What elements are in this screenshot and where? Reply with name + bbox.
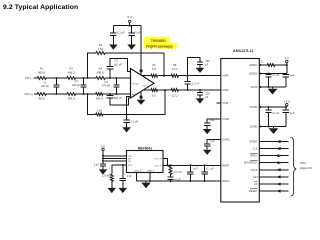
svg-text:AVSS: AVSS: [251, 85, 258, 89]
svg-text:DGND: DGND: [250, 125, 258, 129]
svg-text:VIN (−): VIN (−): [25, 76, 34, 80]
resistor R9 5 ohm: [150, 74, 158, 77]
svg-text:pF: pF: [205, 63, 208, 67]
svg-text:CAPA: CAPA: [222, 117, 229, 121]
svg-text:220: 220: [205, 59, 210, 63]
svg-text:330 pF: 330 pF: [72, 83, 80, 87]
wire VOCM line: [127, 97, 131, 120]
wire AVDD1: [260, 64, 287, 66]
wire bottom input rail: [34, 93, 131, 95]
resistor R3 499 ohm: [66, 77, 77, 80]
svg-text:FILT: FILT: [128, 165, 133, 167]
svg-text:5 Ω: 5 Ω: [152, 94, 156, 98]
svg-text:5 V: 5 V: [285, 56, 289, 60]
voltage reference U3 REF6041: [127, 151, 164, 173]
capacitor 47 uF: [167, 177, 173, 179]
resistor R12 22 ohm: [170, 89, 179, 92]
svg-text:2.2 nF: 2.2 nF: [192, 82, 200, 86]
svg-text:1 μF: 1 μF: [290, 112, 296, 115]
svg-text:START: START: [249, 140, 258, 144]
ground amp supply cap2: [131, 43, 133, 45]
svg-text:AVDD2: AVDD2: [249, 72, 258, 76]
wire top input rail: [34, 77, 131, 79]
wire REFN rail: [137, 180, 221, 182]
wire DRDY: [260, 155, 289, 157]
wire REF ground pins: [137, 173, 151, 182]
wire OUT_F jog: [163, 159, 168, 166]
wire SCLK: [260, 169, 289, 171]
svg-text:1 μF: 1 μF: [210, 118, 216, 122]
svg-text:1.8 V: 1.8 V: [284, 100, 290, 104]
op-amp negative supply pin: [140, 96, 143, 99]
svg-text:R3: R3: [99, 43, 103, 47]
svg-text:CAPD: CAPD: [222, 138, 229, 142]
capacitor 1 uF CAPD: [204, 144, 210, 146]
svg-text:C2: C2: [75, 79, 79, 83]
svg-text:5 V: 5 V: [128, 15, 132, 19]
svg-text:499 Ω: 499 Ω: [97, 71, 104, 75]
svg-text:1 kΩ: 1 kΩ: [98, 47, 103, 51]
capacitor 220 pF AINP: [186, 75, 188, 77]
svg-text:2 Ω: 2 Ω: [259, 60, 263, 64]
ground VOCM cap: [126, 126, 128, 128]
svg-text:0.1 μF: 0.1 μF: [206, 167, 214, 171]
svg-text:R4: R4: [99, 67, 103, 71]
svg-text:SCLK: SCLK: [251, 168, 258, 172]
wire bottom feedback rail: [86, 93, 88, 95]
svg-text:VIN (+): VIN (+): [24, 92, 33, 96]
wire START: [260, 141, 289, 143]
svg-text:CLK: CLK: [252, 147, 257, 151]
svg-text:160 pF: 160 pF: [114, 96, 122, 100]
svg-text:REFP: REFP: [222, 163, 229, 167]
op-amp power pin square: [140, 69, 143, 72]
svg-text:R6: R6: [152, 63, 156, 67]
capacitor 220 pF AINN: [199, 89, 201, 91]
resistor R4 499 ohm: [66, 93, 77, 96]
svg-text:499 Ω: 499 Ω: [68, 97, 75, 101]
ground FILT cap: [122, 187, 124, 189]
capacitor C3 160 pF top branch: [109, 77, 111, 79]
wire CAPD: [207, 140, 221, 144]
capacitor 1 uF amp supply: [128, 33, 134, 35]
svg-text:120 kΩ: 120 kΩ: [102, 174, 110, 178]
capacitor 1 uF reference: [189, 165, 191, 172]
svg-text:220: 220: [205, 92, 210, 96]
svg-text:5 Ω: 5 Ω: [152, 67, 156, 71]
svg-text:499 Ω: 499 Ω: [38, 97, 45, 101]
svg-text:pF: pF: [205, 95, 208, 99]
note THS4551 VQFN highlight: [143, 36, 178, 49]
svg-text:47 μF: 47 μF: [174, 177, 181, 181]
svg-text:1 μF: 1 μF: [192, 167, 198, 171]
capacitor 1 uF CAPA: [204, 123, 210, 125]
capacitor 0.1 uF VOCM: [123, 120, 130, 122]
svg-text:GND_S: GND_S: [134, 171, 142, 173]
node top feedback junction: [163, 75, 165, 77]
svg-text:1 μF: 1 μF: [290, 74, 296, 77]
capacitor C5 160 pF bottom branch: [109, 93, 111, 95]
ground 120k resistor: [111, 187, 113, 189]
resistor 47 mohm: [169, 165, 172, 175]
resistor 120 kohm: [110, 174, 113, 183]
svg-text:22 Ω: 22 Ω: [172, 94, 178, 98]
resistor R7 1 kohm: [95, 52, 106, 55]
wire SDI: [260, 176, 289, 178]
svg-text:470 pF: 470 pF: [102, 84, 110, 88]
svg-text:RESET: RESET: [249, 189, 258, 193]
svg-text:DRDY: DRDY: [250, 154, 258, 158]
svg-text:SDI: SDI: [253, 175, 258, 179]
op-amp U1 THS4551: [131, 69, 155, 99]
svg-text:0.1 μF: 0.1 μF: [272, 74, 280, 77]
svg-text:499 Ω: 499 Ω: [96, 97, 103, 101]
resistor R1 499 ohm: [36, 77, 47, 80]
capacitor 0.1 uF amp supply: [110, 33, 116, 35]
svg-text:C1: C1: [43, 80, 47, 84]
brace ADC digital I/O: [291, 138, 297, 197]
capacitor 0.1 uF reference: [204, 165, 206, 172]
wire SDO/DRDY: [260, 162, 289, 164]
svg-text:47 mΩ: 47 mΩ: [174, 170, 182, 174]
svg-text:THS4551: THS4551: [151, 39, 166, 43]
svg-text:IOVDD: IOVDD: [249, 105, 257, 109]
capacitor 1 uF IOVDD: [285, 107, 287, 110]
svg-text:C3: C3: [115, 58, 119, 62]
ground REF input cap: [102, 168, 104, 170]
wire top output: [142, 75, 221, 77]
svg-text:ADS127L11: ADS127L11: [233, 49, 254, 53]
svg-text:VCM: VCM: [222, 101, 228, 105]
svg-text:AINP: AINP: [222, 74, 228, 78]
svg-text:0.1 μF: 0.1 μF: [131, 120, 139, 124]
svg-text:SDO/DRDY: SDO/DRDY: [244, 161, 258, 165]
resistor R5 499 ohm: [95, 77, 106, 80]
wire RESET: [260, 190, 289, 192]
svg-text:5 V: 5 V: [101, 144, 105, 148]
svg-text:160 pF: 160 pF: [114, 62, 122, 66]
capacitor 1 uF FILT: [120, 178, 126, 180]
ground REF: [145, 181, 147, 183]
svg-text:(VQFN package): (VQFN package): [146, 45, 173, 49]
svg-text:1 μF: 1 μF: [135, 31, 141, 35]
svg-text:VOCM: VOCM: [132, 83, 139, 85]
wire FILT: [112, 165, 127, 178]
svg-text:499 Ω: 499 Ω: [38, 71, 45, 75]
wire REFP rail: [163, 164, 221, 166]
svg-text:0.1 μF: 0.1 μF: [272, 112, 280, 115]
wire top feedback rail: [86, 77, 88, 79]
capacitor 1 uF REF input: [100, 164, 106, 166]
capacitor C1 220 pF: [55, 77, 57, 79]
svg-text:GND_F: GND_F: [147, 171, 155, 173]
svg-text:ADC: ADC: [300, 161, 306, 165]
resistor R10 5 ohm: [150, 89, 158, 92]
ground CAPA cap: [206, 128, 208, 130]
svg-text:22 Ω: 22 Ω: [172, 67, 178, 71]
svg-text:CS: CS: [254, 182, 258, 186]
resistor 2 ohm AVDD1: [267, 64, 276, 67]
svg-text:1 kΩ: 1 kΩ: [97, 108, 102, 112]
ground amp supply cap1: [112, 43, 114, 45]
wire REF supply: [103, 151, 127, 164]
wire CLK: [260, 148, 289, 150]
capacitor C2 330 pF: [82, 77, 84, 79]
resistor R11 22 ohm: [170, 74, 179, 77]
ground CAPD cap: [206, 148, 208, 150]
node bottom feedback junction: [164, 89, 166, 91]
svg-text:R8: R8: [173, 63, 177, 67]
capacitor C4 470 pF: [115, 77, 117, 79]
svg-text:R2: R2: [70, 67, 74, 71]
svg-text:R1: R1: [40, 67, 44, 71]
wire AVSS rail: [260, 86, 286, 88]
resistor R8 1 kohm: [95, 113, 104, 116]
svg-text:1 μF: 1 μF: [210, 139, 216, 143]
svg-text:1 μF: 1 μF: [94, 163, 100, 167]
svg-text:AVDD1: AVDD1: [249, 63, 258, 67]
wire AVDD2: [260, 73, 287, 75]
resistor R2 499 ohm: [36, 93, 47, 96]
capacitor 0.1 uF IOVDD: [268, 107, 270, 110]
svg-text:220 pF: 220 pF: [41, 84, 49, 88]
svg-text:C4: C4: [104, 80, 108, 84]
svg-text:digital I/O: digital I/O: [300, 166, 313, 170]
svg-text:OUT_S: OUT_S: [154, 165, 162, 167]
wire CAPA: [207, 119, 221, 123]
section title: [3, 4, 78, 11]
capacitor 1 uF AVDD: [285, 74, 287, 75]
ground AVSS: [272, 87, 274, 89]
capacitor 2.2 nF differential: [186, 89, 188, 91]
wire IOVDD rail: [260, 106, 287, 108]
wire VCM stub: [217, 102, 221, 104]
ground AINN cap: [199, 97, 201, 99]
wire CS: [260, 183, 289, 185]
wire DGND rail: [260, 126, 286, 128]
svg-text:REF6041: REF6041: [138, 147, 152, 151]
svg-text:OUT_F: OUT_F: [154, 159, 162, 161]
svg-text:OUT+: OUT+: [142, 86, 149, 88]
resistor R6 499 ohm: [95, 93, 104, 96]
ground DGND: [273, 127, 275, 129]
svg-text:AINN: AINN: [222, 88, 228, 92]
ground op-amp VS-: [140, 98, 142, 100]
ADC U2 ADS127L11: [221, 59, 259, 203]
svg-text:0.1 μF: 0.1 μF: [117, 31, 125, 35]
svg-text:REFN: REFN: [222, 179, 229, 183]
wire bottom output: [144, 89, 221, 91]
svg-text:1 μF: 1 μF: [127, 174, 133, 178]
ground AINP cap: [199, 66, 201, 68]
capacitor 0.1 uF AVDD: [268, 74, 270, 75]
svg-text:499 Ω: 499 Ω: [68, 71, 75, 75]
